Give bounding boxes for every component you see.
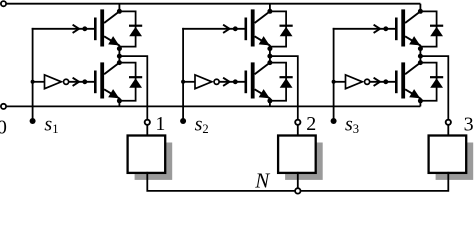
cell source box 2 shadow bbox=[285, 143, 323, 180]
junction dot upper gate cell3 bbox=[383, 26, 388, 31]
freewheel diode D3b (lower, antiparallel) bbox=[420, 63, 436, 101]
wire: terminal 3 to box bbox=[447, 125, 449, 137]
junction dot collector Q2a / diode D2a bbox=[267, 9, 272, 14]
wire: control line s2 vertical bbox=[182, 28, 184, 121]
junction dot collector Q2b / diode D2b bbox=[267, 60, 272, 65]
junction dot emitter Q3b bbox=[418, 98, 423, 103]
cell source box 1 bbox=[128, 136, 166, 173]
svg-text:1: 1 bbox=[155, 113, 165, 135]
wire: control line s3 vertical bbox=[333, 28, 335, 121]
wire: terminal 1 to box bbox=[146, 125, 148, 137]
svg-text:2: 2 bbox=[306, 113, 316, 135]
node s1 dot bbox=[30, 118, 36, 124]
junction dot emitter Q2b bbox=[267, 98, 272, 103]
wire: upper gate drive cell2 bbox=[182, 28, 245, 30]
junction dot output tap cell1 bbox=[117, 54, 122, 59]
arrowhead upper gate cell3 bbox=[374, 25, 380, 33]
wire: emitter Q2b to bottom bus bbox=[269, 101, 271, 107]
junction dot upper gate cell1 bbox=[82, 26, 87, 31]
wire: inverter input cell3 bbox=[334, 81, 346, 83]
IGBT Q3a upper cell3 bbox=[395, 18, 398, 41]
junction dot control tap cell1 bbox=[31, 80, 35, 84]
terminal circle top-left bbox=[1, 1, 6, 6]
IGBT Q2b lower cell2 bbox=[245, 71, 248, 94]
junction dot lower gate cell2 bbox=[233, 79, 238, 84]
arrowhead lower gate cell1 bbox=[73, 78, 79, 86]
svg-text:s2: s2 bbox=[195, 113, 209, 136]
svg-text:N: N bbox=[254, 169, 270, 193]
wire: output tap cell3 to terminal 3 bbox=[420, 56, 448, 120]
inverter (NOT gate) cell2 bbox=[195, 75, 212, 89]
junction dot control tap cell3 bbox=[332, 80, 336, 84]
svg-text:0: 0 bbox=[0, 117, 7, 139]
junction dot control tap cell2 bbox=[181, 80, 185, 84]
freewheel diode D2a (upper, antiparallel) bbox=[270, 11, 286, 46]
terminal node 1 circle bbox=[145, 120, 150, 125]
IGBT Q1b lower cell1 bbox=[94, 71, 97, 94]
junction dot upper gate cell2 bbox=[233, 26, 238, 31]
cell source box 3 shadow bbox=[436, 143, 474, 180]
svg-text:3: 3 bbox=[464, 114, 474, 136]
cell source box 2 bbox=[278, 136, 316, 173]
cell source box 1 shadow bbox=[135, 143, 173, 180]
IGBT Q1a upper cell1 bbox=[94, 18, 97, 41]
wire: control line s1 vertical bbox=[32, 28, 34, 121]
junction dot emitter Q1b bbox=[117, 98, 122, 103]
wire: emitter Q1b to bottom bus bbox=[118, 101, 120, 107]
freewheel diode D1a (upper, antiparallel) bbox=[119, 11, 135, 46]
wire: emitter Q3b to bottom bus bbox=[419, 101, 421, 107]
terminal node 3 circle bbox=[446, 120, 451, 125]
wire: inverter input cell1 bbox=[33, 81, 45, 83]
cell source box 3 bbox=[429, 136, 467, 173]
freewheel diode D1b (lower, antiparallel) bbox=[119, 63, 135, 101]
IGBT Q3b lower cell3 bbox=[395, 71, 398, 94]
freewheel diode D3a (upper, antiparallel) bbox=[420, 11, 436, 46]
wire: lower gate drive cell2 bbox=[219, 81, 245, 83]
wire: lower gate drive cell1 bbox=[69, 81, 95, 83]
terminal circle bottom-left (node 0) bbox=[1, 104, 6, 109]
arrowhead upper gate cell2 bbox=[223, 25, 229, 33]
node N circle bbox=[295, 188, 300, 193]
wire: upper gate drive cell3 bbox=[333, 28, 396, 30]
node s2 dot bbox=[180, 118, 186, 124]
junction dot emitter Q3a bbox=[418, 46, 423, 51]
inverter (NOT gate) cell1 bbox=[45, 75, 62, 89]
arrowhead lower gate cell3 bbox=[374, 78, 380, 86]
top DC bus rail bbox=[6, 3, 420, 5]
freewheel diode D2b (lower, antiparallel) bbox=[270, 63, 286, 101]
wire: upper gate drive cell1 bbox=[32, 28, 95, 30]
wire: lower gate drive cell3 bbox=[370, 81, 396, 83]
junction dot output tap cell3 bbox=[418, 54, 423, 59]
bottom bus rail (terminal 0 net) bbox=[6, 105, 420, 107]
junction dot output tap cell2 bbox=[267, 54, 272, 59]
wire: box2 to node N bbox=[297, 172, 299, 188]
wire: output tap cell1 to terminal 1 bbox=[119, 56, 147, 120]
terminal node 2 circle bbox=[295, 120, 300, 125]
svg-text:s3: s3 bbox=[345, 113, 359, 136]
arrowhead upper gate cell1 bbox=[73, 25, 79, 33]
junction dot lower gate cell3 bbox=[383, 79, 388, 84]
inverter (NOT gate) cell3 bbox=[346, 75, 363, 89]
arrowhead lower gate cell2 bbox=[223, 78, 229, 86]
junction dot lower gate cell1 bbox=[82, 79, 87, 84]
junction dot collector Q3b / diode D3b bbox=[418, 60, 423, 65]
junction dot collector Q1a / diode D1a bbox=[117, 9, 122, 14]
IGBT Q2a upper cell2 bbox=[245, 18, 248, 41]
wire: output tap cell2 to terminal 2 bbox=[270, 56, 298, 120]
junction dot collector Q1b / diode D1b bbox=[117, 60, 122, 65]
junction dot collector Q3a / diode D3a bbox=[418, 9, 423, 14]
node s3 dot bbox=[331, 118, 337, 124]
junction dot emitter Q2a bbox=[267, 46, 272, 51]
wire: terminal 2 to box bbox=[297, 125, 299, 137]
junction dot emitter Q1a bbox=[117, 46, 122, 51]
wire: box1 and box3 to N rail bbox=[147, 172, 448, 191]
svg-text:s1: s1 bbox=[44, 113, 58, 136]
wire: inverter input cell2 bbox=[183, 81, 195, 83]
